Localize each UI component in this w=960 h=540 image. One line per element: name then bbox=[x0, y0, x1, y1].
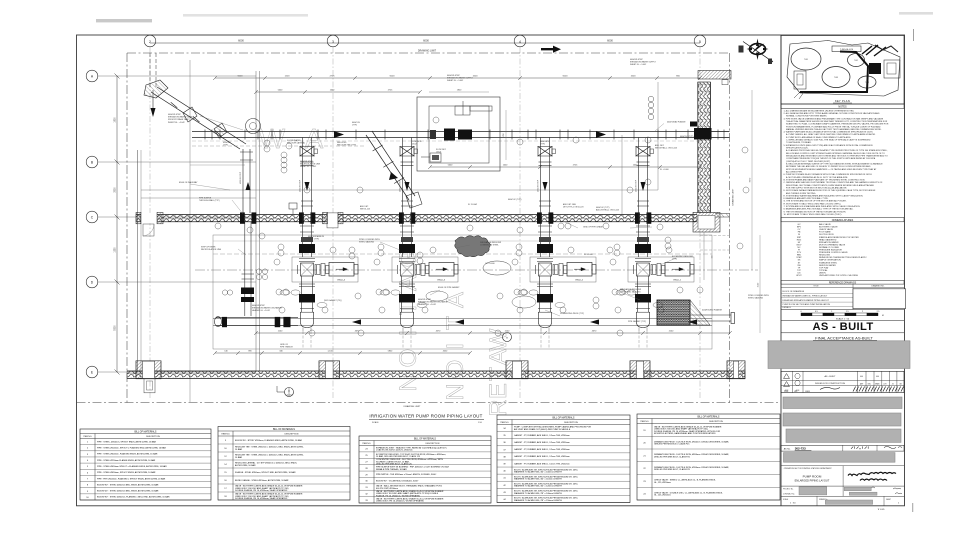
grid bubble D bbox=[86, 276, 98, 288]
svg-text:150: 150 bbox=[712, 256, 714, 259]
svg-text:DESCRIPTION: DESCRIPTION bbox=[426, 443, 440, 445]
pump P3 lower flange band bbox=[538, 307, 552, 309]
svg-text:PIPE : STEEL Ø250mm FLANGE END: PIPE : STEEL Ø250mm FLANGE ENDS, ASTM D2… bbox=[97, 459, 156, 462]
svg-text:T-301: T-301 bbox=[804, 59, 808, 61]
suction channel wall lines bbox=[213, 318, 712, 320]
key plan site polygon bbox=[787, 41, 900, 97]
svg-text:SCALE: SCALE bbox=[372, 421, 379, 424]
section marker A bottom bbox=[285, 388, 294, 397]
loop fitting at header start bbox=[246, 119, 261, 134]
dashed line below header bbox=[192, 145, 365, 147]
pump P4 coupling bbox=[651, 265, 656, 275]
svg-text:TO ASTM A536, TIR BEAR.: TO ASTM A536, TIR BEAR. bbox=[786, 141, 812, 144]
faint scanned header text top-right bbox=[899, 12, 933, 15]
grid line C leader bbox=[98, 216, 256, 218]
meter dimension lines bbox=[429, 91, 489, 93]
riser arrow down x643 bbox=[641, 182, 646, 191]
svg-text:SUBMITTED TO PLAN, COORDINATE: SUBMITTED TO PLAN, COORDINATE DRAFT DIAM… bbox=[786, 123, 889, 126]
key plan tank ellipse 1 bbox=[791, 48, 821, 70]
svg-text:1 : 50: 1 : 50 bbox=[790, 503, 796, 505]
svg-text:(TYP): (TYP) bbox=[352, 125, 357, 127]
svg-text:FEMALE PIPE THREAD, 16 BAR: FEMALE PIPE THREAD, 16 BAR bbox=[376, 468, 407, 471]
svg-text:ASTM D2996, 16 BAR: ASTM D2996, 16 BAR bbox=[235, 464, 256, 467]
svg-text:6000: 6000 bbox=[423, 39, 429, 43]
svg-text:4. WATER PUMPS ARE IN ACCORDA: 4. WATER PUMPS ARE IN ACCORDANCE WITH RO… bbox=[784, 131, 874, 134]
svg-text:D102: D102 bbox=[412, 144, 417, 146]
svg-text:BELLOW AND CONTROL UNIT STRENG: BELLOW AND CONTROL UNIT STRENGTH AND SPR… bbox=[786, 152, 885, 155]
recirculation horizontal pipe west bbox=[216, 317, 298, 319]
pump P4 casing bbox=[637, 263, 650, 276]
svg-text:(TYP): (TYP) bbox=[672, 259, 677, 261]
svg-text:SEE DETAIL-1 ON DI-223: SEE DETAIL-1 ON DI-223 bbox=[655, 147, 677, 150]
svg-text:WASHERS TO ACME F436, 7/8" x 1: WASHERS TO ACME F436, 7/8" x 140mm LENGT… bbox=[514, 492, 562, 495]
scattered annotation labels bbox=[168, 59, 769, 349]
svg-text:PIPE : STEEL Ø650mm, SPIGOT EN: PIPE : STEEL Ø650mm, SPIGOT ENDS, ASTM D… bbox=[97, 471, 156, 474]
riser arrow up x248 bbox=[246, 182, 251, 190]
grid bubble 5 bbox=[694, 35, 706, 47]
grid line 5 vertical bbox=[699, 47, 701, 400]
svg-text:FL 15.00Ø: FL 15.00Ø bbox=[468, 204, 477, 206]
right incline flanges bbox=[373, 145, 383, 151]
svg-text:A. MOTOR ARE OPERATING AS IN G: A. MOTOR ARE OPERATING AS IN GL DUTY OF … bbox=[786, 176, 848, 179]
svg-text:MANUAL VERIFIED BEFORE THE ALL: MANUAL VERIFIED BEFORE THE ALL FACTORY T… bbox=[786, 128, 882, 131]
svg-text:IRRIGATION WATER SUPPLY: IRRIGATION WATER SUPPLY bbox=[168, 116, 195, 119]
drawing limit line top bbox=[127, 52, 730, 54]
pipe penetration right wall bbox=[694, 128, 712, 140]
svg-text:AS No.: AS No. bbox=[784, 447, 791, 450]
dashes below corner bbox=[700, 234, 729, 236]
svg-text:PUMP ROOM SECTION AND PUMP INS: PUMP ROOM SECTION AND PUMP INSTALLATION bbox=[783, 303, 831, 306]
svg-text:RECIRCULATION LINE: RECIRCULATION LINE bbox=[300, 163, 321, 166]
svg-text:AND TURNED FORM TESTING.: AND TURNED FORM TESTING. bbox=[786, 192, 816, 195]
svg-text:600 PSI CWP, Ø200mm: 600 PSI CWP, Ø200mm bbox=[376, 488, 398, 490]
riser butterfly valve x643 bbox=[636, 147, 650, 157]
svg-text:10. MOTOR ARE TOTALLY ENCLOSED: 10. MOTOR ARE TOTALLY ENCLOSED FAN COOLE… bbox=[784, 213, 843, 216]
flow meter chamber outer box bbox=[417, 97, 500, 171]
svg-text:ITEM NO.: ITEM NO. bbox=[221, 434, 230, 436]
header black flange blocks in meter box bbox=[444, 129, 455, 141]
grid bubble B bbox=[86, 156, 98, 168]
upper wall hatched band bbox=[136, 214, 697, 221]
svg-text:RECIRCULATION LINE: RECIRCULATION LINE bbox=[201, 248, 222, 251]
svg-text:3. PIPE WORK VALVE DIMENSION: 3. PIPE WORK VALVE DIMENSION AND PRELIMI… bbox=[784, 117, 884, 120]
svg-text:KEY PLAN: KEY PLAN bbox=[835, 99, 850, 103]
svg-text:302-723: 302-723 bbox=[795, 447, 806, 451]
BOM table 2 bbox=[218, 427, 350, 501]
riser butterfly valve x307 bbox=[300, 147, 314, 157]
svg-text:DOWNSIZING PIECE (TYP): DOWNSIZING PIECE (TYP) bbox=[560, 313, 584, 315]
svg-text:HEAD GASKETED: HEAD GASKETED bbox=[819, 238, 837, 241]
svg-text:DETAILS: DETAILS bbox=[783, 306, 792, 309]
svg-text:IRRIGATION WATER SUPPLY: IRRIGATION WATER SUPPLY bbox=[630, 61, 657, 64]
svg-text:FL +5.000: FL +5.000 bbox=[660, 169, 669, 171]
right inclined bypass pipe bbox=[366, 131, 415, 200]
riser expansion joint block x643 bbox=[635, 244, 651, 253]
pump P1 dashed line below bell bbox=[302, 331, 304, 349]
grid line E leader bbox=[98, 371, 256, 373]
nomenclatures header bbox=[781, 218, 904, 222]
svg-text:GB: GB bbox=[899, 384, 901, 386]
left vertical dimension line bbox=[116, 76, 118, 372]
upper wall pipe sleeves bbox=[240, 212, 245, 223]
svg-text:PIPE NIPPLE : THK Ø200mm x 55m: PIPE NIPPLE : THK Ø200mm x 55mm LENGTH, … bbox=[376, 474, 437, 476]
svg-text:1,100: 1,100 bbox=[327, 351, 333, 353]
svg-text:LINED BODY, PN 16, Ø200mm, WOR: LINED BODY, PN 16, Ø200mm, WORM OPERATED bbox=[376, 500, 425, 503]
room edge vertical x658 bbox=[657, 82, 659, 190]
svg-text:400Ø-IR-STEP: 400Ø-IR-STEP bbox=[538, 179, 540, 192]
riser butterfly valve x407 bbox=[400, 147, 414, 157]
svg-text:400Ø BLIND FLANGE: 400Ø BLIND FLANGE bbox=[702, 309, 723, 312]
riser flange pair x643 bbox=[637, 161, 650, 163]
scale bar bbox=[800, 311, 884, 321]
svg-text:PIPE : STEEL Ø500mm, SPIGOT x: PIPE : STEEL Ø500mm, SPIGOT x FLANGED EN… bbox=[97, 447, 166, 450]
svg-text:DRILLED PER MSS BOLT, CLASS F2: DRILLED PER MSS BOLT, CLASS F25 bbox=[654, 455, 691, 458]
svg-text:GW-D-1: GW-D-1 bbox=[673, 279, 682, 281]
upper wall door recess mid bbox=[327, 213, 338, 228]
svg-text:I: I bbox=[442, 343, 469, 350]
redaction gray small boxes bottom bbox=[799, 487, 827, 495]
riser lower fitting x407 bbox=[401, 200, 413, 202]
pump P4 suction pipe down bbox=[637, 276, 639, 312]
riser arrow down x545 bbox=[543, 182, 548, 191]
grid line B leader bbox=[98, 161, 256, 163]
svg-text:REDUCER TEE : STEEL Ø350mm x Ø: REDUCER TEE : STEEL Ø350mm x Ø200mm, BEL… bbox=[235, 446, 304, 449]
svg-text:NORMAL CONDITIONS FOR EVEN BAS: NORMAL CONDITIONS FOR EVEN BASES. bbox=[786, 115, 828, 118]
redaction gray box 2 bbox=[783, 397, 902, 409]
riser wall sleeve callouts x307 bbox=[300, 225, 314, 227]
svg-text:2. ALL DATA SHOWN ARE UPTO TY: 2. ALL DATA SHOWN ARE UPTO TYPES A AND G… bbox=[784, 112, 880, 115]
pump P1 lower flange band bbox=[300, 307, 314, 309]
faint scanned header text top-left bbox=[96, 19, 152, 22]
svg-text:1350: 1350 bbox=[115, 247, 117, 253]
svg-text:400: 400 bbox=[860, 376, 863, 378]
svg-text:GASKET : PT, RUBBER, AKS SHD.D: GASKET : PT, RUBBER, AKS SHD.D, 3.2mm TH… bbox=[514, 441, 570, 444]
redaction gray box 4 bbox=[786, 429, 901, 442]
svg-text:REFERENCE DRAWINGS: REFERENCE DRAWINGS bbox=[829, 281, 857, 284]
lower wall door jambs bbox=[136, 361, 161, 379]
right vertical dimension line bbox=[751, 90, 753, 270]
pump P4 dashed line below bell bbox=[638, 331, 640, 349]
svg-text:1200: 1200 bbox=[285, 76, 291, 78]
redaction gray box 3 bbox=[783, 413, 901, 426]
riser wall sleeve callouts x545 bbox=[538, 225, 552, 227]
svg-text:D. MOTOR ARE DATA A STANDARDS: D. MOTOR ARE DATA A STANDARDS MOTOR OF T… bbox=[784, 189, 876, 192]
redaction gray box large bbox=[768, 341, 910, 369]
svg-text:400Ø-IR-STEP: 400Ø-IR-STEP bbox=[240, 171, 242, 184]
svg-text:T-303: T-303 bbox=[834, 77, 838, 79]
inclined supply pipe from storage tank bbox=[151, 87, 246, 149]
revision cloud outline 3 bbox=[512, 296, 536, 308]
corner tick bottom-right bbox=[912, 503, 914, 512]
svg-text:IRRIGATION WATER PUMP ROOM PIP: IRRIGATION WATER PUMP ROOM PIPING LAYOUT bbox=[369, 414, 482, 419]
pump P2 suction pipe down bbox=[401, 276, 403, 312]
svg-text:1. ALL DIMENSIONS ARE IN MILL: 1. ALL DIMENSIONS ARE IN MILLIMETERS UNL… bbox=[784, 109, 855, 112]
svg-text:GASKET : PT, RUBBER, AKS SHD.D: GASKET : PT, RUBBER, AKS SHD.D, 3.2mm TH… bbox=[514, 455, 570, 458]
reference drawings white overlay box bbox=[853, 289, 906, 309]
svg-text:FL +5.000: FL +5.000 bbox=[486, 263, 496, 265]
svg-text:PIPE : STEEL Ø650mm SPIGOT x F: PIPE : STEEL Ø650mm SPIGOT x FLANGED END… bbox=[97, 465, 167, 468]
east stub pipe at corner bbox=[715, 213, 730, 215]
svg-text:INSTALLATION AND RESISTANT LIM: INSTALLATION AND RESISTANT LIMIT STRESS … bbox=[786, 155, 888, 158]
svg-text:COVERED W/ STEEL: COVERED W/ STEEL bbox=[480, 245, 499, 247]
company name text bbox=[781, 465, 904, 467]
pump bay outline P4 bbox=[628, 257, 694, 282]
svg-text:STEEL SADDING: STEEL SADDING bbox=[359, 241, 375, 244]
svg-text:9. THE SYSTEM AND MOTOR OF TH: 9. THE SYSTEM AND MOTOR OF THE MOTOR ARE… bbox=[784, 210, 847, 213]
riser flange pair x407 bbox=[401, 161, 414, 163]
svg-text:(TYP): (TYP) bbox=[540, 144, 545, 146]
svg-text:INVERT EL. +5.042: INVERT EL. +5.042 bbox=[168, 122, 185, 124]
recirculation riser pipes bbox=[244, 222, 246, 316]
svg-text:DISCHARGE REDUCER: DISCHARGE REDUCER bbox=[480, 241, 502, 244]
svg-text:MOTION MOVEMENTS BEING DIAMETE: MOTION MOVEMENTS BEING DIAMETERS --- OF … bbox=[786, 168, 877, 171]
svg-text:DRAWING LIMIT: DRAWING LIMIT bbox=[732, 188, 735, 205]
svg-text:G. THE SYSTEM AND MOTOR OF TH: G. THE SYSTEM AND MOTOR OF THE MOTOR ARE… bbox=[784, 200, 847, 203]
door fixture below left jamb bbox=[144, 379, 155, 393]
svg-text:NOTES: NOTES bbox=[838, 106, 847, 109]
svg-text:GRID OF PIPE CHASE: GRID OF PIPE CHASE bbox=[583, 226, 603, 229]
grid line 3 vertical bbox=[332, 47, 334, 400]
pump P3 coupling bbox=[553, 265, 558, 275]
svg-text:400: 400 bbox=[876, 376, 879, 378]
svg-text:AS - BUILT: AS - BUILT bbox=[812, 321, 873, 333]
pump P2 inlet flanges bbox=[399, 258, 415, 260]
svg-text:ELBOW 90° : BTRFY Ø200mm, FLAN: ELBOW 90° : BTRFY Ø200mm, FLANGED ENDS, … bbox=[235, 439, 303, 442]
riser wall sleeve callouts x407 bbox=[400, 225, 414, 227]
svg-text:KOORDINATED: KOORDINATED bbox=[287, 139, 301, 142]
svg-text:THROUGH WALL (TYP): THROUGH WALL (TYP) bbox=[199, 199, 220, 202]
svg-text:AIR VENT AND DRAIN OUT (AS-IS): AIR VENT AND DRAIN OUT (AS-IS) PER PUMP … bbox=[514, 428, 571, 431]
pump bay outline P3 bbox=[530, 257, 596, 282]
svg-text:BILL OF MATERIALS: BILL OF MATERIALS bbox=[273, 428, 295, 431]
svg-text:JOINT (TYP): JOINT (TYP) bbox=[308, 239, 319, 241]
svg-text:BILL OF MATERIALS: BILL OF MATERIALS bbox=[553, 416, 575, 419]
riser arrow down x307 bbox=[305, 182, 310, 191]
key plan supply route thick bbox=[800, 52, 868, 93]
pump riser pipe x545 bbox=[540, 138, 542, 258]
svg-text:DESCRIPTION: DESCRIPTION bbox=[564, 422, 578, 424]
svg-text:2725: 2725 bbox=[330, 76, 336, 78]
pump P1 suction bell can bbox=[301, 312, 314, 327]
riser expansion joint block x545 bbox=[537, 244, 553, 253]
svg-text:EDGE OF PIPE GASKET: EDGE OF PIPE GASKET bbox=[438, 286, 460, 289]
grid line 4 vertical bbox=[519, 47, 521, 400]
riser flange pair x307 bbox=[301, 161, 314, 163]
right wall side fitting bbox=[690, 122, 697, 127]
key plan box bbox=[781, 36, 904, 105]
svg-text:E. SYSTEM AND WATER MACHINES: E. SYSTEM AND WATER MACHINES ARE INSULAT… bbox=[784, 194, 864, 197]
svg-text:SPECIFICATION 15025.: SPECIFICATION 15025. bbox=[786, 147, 809, 150]
pump P3 dashed line below bell bbox=[540, 331, 542, 349]
svg-text:PROJECT No.: PROJECT No. bbox=[783, 489, 794, 491]
title block bottom rows bbox=[781, 486, 904, 506]
svg-text:BILL OF MATERIALS: BILL OF MATERIALS bbox=[698, 415, 720, 418]
svg-text:O: O bbox=[395, 349, 422, 368]
header stub to drawing limit bbox=[710, 131, 729, 133]
svg-text:DOUBLE FLANGE, PN 16, Ø350mm,: DOUBLE FLANGE, PN 16, Ø350mm, GEAR OPERA… bbox=[235, 489, 288, 492]
pipe chase inner line bbox=[213, 240, 712, 242]
svg-text:GW-D-4: GW-D-4 bbox=[337, 279, 346, 281]
stamp approval table bbox=[781, 371, 904, 393]
upper wall door jamb left bbox=[141, 213, 157, 223]
svg-text:AS - BUILT: AS - BUILT bbox=[825, 375, 837, 378]
svg-text:T: T bbox=[442, 315, 469, 330]
svg-text:ADD DET. SEE: ADD DET. SEE bbox=[563, 203, 577, 206]
svg-text:SERVICE WATER: SERVICE WATER bbox=[819, 264, 836, 267]
AS number row bbox=[781, 445, 904, 451]
right wall corner box bbox=[693, 212, 720, 232]
svg-text:400Ø-IR-STEP: 400Ø-IR-STEP bbox=[300, 179, 302, 192]
svg-text:400Ø-IR-STEP: 400Ø-IR-STEP bbox=[636, 179, 638, 192]
pump P4 lower flange band bbox=[636, 307, 650, 309]
key plan tank ellipse 4 bbox=[858, 76, 876, 88]
pump P3 casing bbox=[539, 263, 552, 276]
svg-text:5: 5 bbox=[699, 40, 701, 44]
section marker B mid bbox=[503, 333, 512, 342]
svg-text:PIPE TRENCH: PIPE TRENCH bbox=[280, 347, 293, 349]
diagonal joint box bbox=[183, 107, 197, 122]
svg-text:5000: 5000 bbox=[238, 76, 244, 78]
pump P1 inlet flanges bbox=[299, 258, 315, 260]
svg-text:STEEL SADDING: STEEL SADDING bbox=[748, 297, 764, 300]
svg-text:MOTOR OPERATED VALVE: MOTOR OPERATED VALVE bbox=[819, 243, 846, 246]
svg-text:IRRIGATION WATER USER GL. PIPI: IRRIGATION WATER USER GL. PIPING LAYOUT bbox=[783, 294, 828, 297]
svg-text:BALL VALVE: BALL VALVE bbox=[819, 223, 831, 226]
svg-text:(W41 GASKET (TX)): (W41 GASKET (TX)) bbox=[324, 299, 342, 302]
recirculation bubbles cluster bbox=[256, 269, 261, 274]
revision cloud outline 1 bbox=[483, 261, 511, 275]
riser lower fitting x545 bbox=[539, 200, 551, 202]
svg-text:ENLARGED IRRIGATION WATER PIPI: ENLARGED IRRIGATION WATER PIPING LAYOUT bbox=[783, 299, 830, 302]
svg-text:ELBOW 90° : STEEL Ø200mm BELL: ELBOW 90° : STEEL Ø200mm BELL ENDS, ASTM… bbox=[97, 483, 159, 486]
pump P3 callout bubbles bbox=[516, 244, 522, 250]
callout bubbles bbox=[215, 117, 749, 336]
svg-text:DRAWING LIMIT: DRAWING LIMIT bbox=[404, 405, 421, 408]
pump riser pipe x643 bbox=[638, 138, 640, 258]
svg-text:DRAWING LIMIT: DRAWING LIMIT bbox=[418, 50, 437, 53]
svg-text:ADD (STEEL)-1 ON DI-223: ADD (STEEL)-1 ON DI-223 bbox=[596, 209, 619, 212]
svg-text:F. BEARINGS ARE ANTI-FRICTION: F. BEARINGS ARE ANTI-FRICTION BALL TYPE. bbox=[784, 197, 829, 200]
svg-text:IRRIGATION WATER DISCHARGE: IRRIGATION WATER DISCHARGE bbox=[418, 301, 449, 304]
svg-text:DISCHARGE REDUCER: DISCHARGE REDUCER bbox=[620, 288, 642, 291]
svg-text:1500: 1500 bbox=[631, 76, 637, 78]
svg-text:A. FLANGED PROPOSAL SELF-ELONG: A. FLANGED PROPOSAL SELF-ELONGATED TYPE … bbox=[786, 149, 888, 152]
svg-text:SHEET GL. +5.042: SHEET GL. +5.042 bbox=[300, 166, 316, 168]
riser butterfly valve x545 bbox=[538, 147, 552, 157]
svg-text:GW-D-3: GW-D-3 bbox=[437, 279, 446, 281]
svg-text:GASKET : PT, RUBBER, AKS SHD.D: GASKET : PT, RUBBER, AKS SHD.D, 3.2mm TH… bbox=[514, 448, 570, 451]
svg-text:3500: 3500 bbox=[115, 187, 117, 193]
thrust block triangle bbox=[690, 300, 710, 325]
west elbow fitting bbox=[215, 317, 222, 327]
pump P3 butterfly valve block bbox=[537, 294, 553, 302]
riser lower fitting x643 bbox=[637, 200, 649, 202]
pipe chase grid dashed centerline bbox=[213, 253, 712, 255]
svg-text:16 BAR, DRILLED PER MSS BOLT,: 16 BAR, DRILLED PER MSS BOLT, CLASS 125 bbox=[376, 455, 421, 458]
walkway edge vertical line left pair bbox=[255, 71, 257, 371]
svg-text:8. BEARINGS ARE ANTI-FRICTION: 8. BEARINGS ARE ANTI-FRICTION BALL TYPE … bbox=[784, 208, 854, 211]
key plan pump room block dark bbox=[869, 63, 881, 74]
grid line 2 vertical bbox=[149, 47, 151, 400]
svg-text:DRAWING NO.: DRAWING NO. bbox=[872, 285, 885, 288]
svg-text:BETWEEN THE GEL AND END OF SLE: BETWEEN THE GEL AND END OF SLEEVE TO PER… bbox=[786, 165, 871, 168]
svg-text:BSU: BSU bbox=[868, 384, 871, 386]
svg-text:SHEET: SHEET bbox=[886, 499, 891, 501]
right vertical wall hatched bbox=[698, 82, 711, 212]
svg-text:HEADER GL. +5.042: HEADER GL. +5.042 bbox=[418, 303, 436, 306]
nomenclature rows bbox=[796, 223, 867, 277]
key plan label box bbox=[832, 46, 861, 52]
svg-text:ELBOW 45° : STEEL Ø200mm BELL: ELBOW 45° : STEEL Ø200mm BELL ENDS, ASTM… bbox=[97, 490, 159, 493]
lower dimension line row 2 bbox=[215, 352, 470, 354]
pump P3 oval callouts bbox=[518, 290, 528, 295]
svg-text:TITLE: TITLE bbox=[813, 286, 819, 288]
reducer on diagonal bbox=[214, 123, 227, 138]
pump P2 casing bbox=[401, 263, 414, 276]
svg-text:GASKET : PT, RUBBER, AKS SHD.D: GASKET : PT, RUBBER, AKS SHD.D, 3.2mm TH… bbox=[514, 462, 570, 465]
concrete thrust block hatched bbox=[657, 300, 690, 325]
top grid dimension line bbox=[150, 42, 700, 44]
svg-text:SCALE 1 : 50: SCALE 1 : 50 bbox=[836, 317, 850, 320]
svg-text:IRRIGATION WATER DISCHARGE: IRRIGATION WATER DISCHARGE bbox=[252, 307, 283, 310]
title block divider line bbox=[780, 35, 782, 506]
svg-text:6000: 6000 bbox=[607, 39, 613, 43]
BOM table 4 bbox=[497, 415, 630, 503]
small valve on wall line bbox=[289, 203, 297, 209]
svg-text:THE ACTUAL DIAMETERS SHOWN ON: THE ACTUAL DIAMETERS SHOWN ON WHETHER TE… bbox=[786, 120, 888, 123]
svg-text:WASHERS TO ACME F436, 7/8" x 1: WASHERS TO ACME F436, 7/8" x 150mm LENGT… bbox=[514, 499, 562, 502]
svg-text:4: 4 bbox=[519, 40, 521, 44]
pump P4 suction bell can bbox=[637, 312, 650, 327]
redaction gray box 5 bbox=[784, 453, 896, 463]
pump P2 oval callouts bbox=[380, 290, 390, 295]
BOM table 3 bbox=[359, 436, 491, 503]
room left wall edge lines bbox=[137, 150, 139, 371]
flow meter chamber inner box bbox=[429, 106, 489, 163]
svg-text:(150PSI) AT HOT 60°C TEMP. DEL: (150PSI) AT HOT 60°C TEMP. DELIVER (SOFT… bbox=[786, 160, 831, 163]
lower wall hatched band bbox=[127, 371, 745, 378]
BOM table 5 bbox=[637, 414, 780, 500]
svg-text:N: N bbox=[442, 383, 469, 400]
grid line A leader bbox=[98, 75, 256, 77]
svg-text:6000: 6000 bbox=[238, 39, 244, 43]
svg-text:E: E bbox=[485, 383, 512, 399]
svg-text:ITEM NO.: ITEM NO. bbox=[362, 443, 371, 445]
svg-text:UPVC: UPVC bbox=[796, 275, 802, 277]
riser wall sleeve callouts x643 bbox=[636, 225, 650, 227]
svg-text:FOR THE SUPPLY WITH MOTOR SECT: FOR THE SUPPLY WITH MOTOR SECTION (11) A… bbox=[786, 186, 848, 189]
svg-text:2: 2 bbox=[149, 40, 151, 44]
riser flange pair x545 bbox=[539, 161, 552, 163]
flow meter bottom-left box bbox=[430, 153, 441, 162]
pump riser pipe x407 bbox=[402, 138, 404, 258]
svg-text:400Ø-IR-STEP: 400Ø-IR-STEP bbox=[400, 179, 402, 192]
svg-text:ENLARGED PIPING LAYOUT: ENLARGED PIPING LAYOUT bbox=[795, 479, 830, 483]
riser lower fitting x307 bbox=[301, 200, 313, 202]
pump centerline bbox=[195, 269, 758, 271]
room inner vertical x622 bbox=[621, 135, 623, 215]
svg-text:40-123: 40-123 bbox=[287, 395, 292, 397]
svg-text:BLOCK OF DRAWINGS: BLOCK OF DRAWINGS bbox=[783, 290, 805, 293]
svg-text:FROM STORAGE TANK: FROM STORAGE TANK bbox=[168, 118, 189, 121]
svg-text:SEE DI-223: SEE DI-223 bbox=[360, 209, 370, 211]
upper dimension line row 2 bbox=[215, 77, 700, 79]
drawing limit line left bbox=[126, 53, 128, 403]
pump P3 suction pipe down bbox=[539, 276, 541, 312]
pump P4 motor bbox=[665, 263, 690, 277]
right incline arrow bbox=[389, 172, 398, 180]
drawing limit line bottom bbox=[77, 402, 781, 404]
